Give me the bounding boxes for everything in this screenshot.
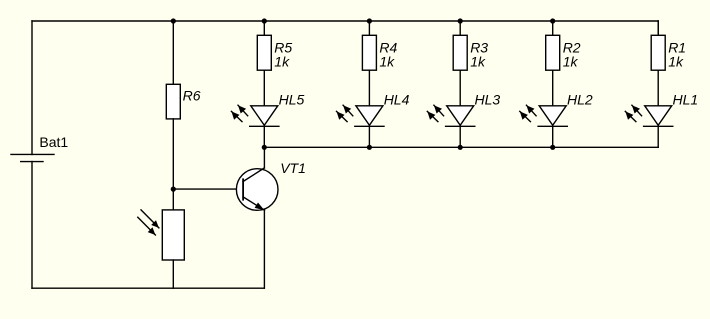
svg-text:1k: 1k (563, 54, 579, 70)
wire: battery positive to top rail (31, 21, 33, 154)
LED HL2 emission arrow 1 (526, 105, 536, 116)
LED HL2 triangle (539, 106, 566, 126)
LED HL3 cathode bar (446, 125, 475, 127)
wire: top rail to R2 (552, 21, 554, 35)
junction: LED rail / VT1 collector (262, 145, 267, 150)
svg-text:R6: R6 (183, 87, 201, 103)
LED HL3 emission arrow 2 (427, 111, 438, 121)
photoresistor light arrow 2 (138, 217, 156, 235)
svg-text:1k: 1k (379, 54, 395, 70)
LED HL1 emission arrow 1 (632, 105, 642, 116)
resistor R6 (166, 84, 180, 119)
junction: top rail / R3 (458, 18, 463, 23)
wire: R6 to base node (172, 119, 174, 189)
wire: top rail drop to R1 (657, 21, 659, 35)
LED HL5 emission arrow 2 (231, 111, 242, 121)
wire: top rail to R5 (263, 21, 265, 35)
LED HL3 triangle (447, 106, 474, 126)
LED HL4 emission arrow 2 (337, 111, 348, 121)
resistor R2 (546, 35, 560, 70)
LED HL5 cathode bar (250, 125, 279, 127)
svg-text:HL2: HL2 (567, 91, 593, 107)
photoresistor light arrow 1 (141, 210, 159, 228)
svg-text:1k: 1k (668, 54, 684, 70)
LED HL1 cathode bar (644, 125, 673, 127)
junction: top rail / R6 (171, 18, 176, 23)
LED HL4 cathode bar (355, 125, 384, 127)
svg-text:VT1: VT1 (280, 160, 306, 176)
transistor VT1 body circle (236, 169, 278, 211)
wire: bottom rail (32, 287, 264, 289)
svg-text:HL3: HL3 (475, 91, 501, 107)
transistor VT1 collector diagonal (243, 168, 264, 182)
LED HL4 emission arrow 1 (343, 105, 353, 116)
svg-text:Bat1: Bat1 (39, 134, 68, 150)
wire: R4 to LED HL4 and cathode rail (368, 70, 370, 147)
junction: LED rail / HL2 (550, 145, 555, 150)
wire: VT1 emitter to bottom rail (263, 210, 265, 288)
junction: top rail / R4 (367, 18, 372, 23)
wire: top rail to R6 (172, 21, 174, 84)
wire: battery negative down (31, 162, 33, 289)
resistor R5 (257, 35, 271, 70)
svg-text:HL4: HL4 (384, 91, 410, 107)
junction: VT1 base node (171, 187, 176, 192)
wire: top rail to R1 (657, 21, 659, 35)
junction: top rail / R2 (550, 18, 555, 23)
wire: R1 to LED HL1 and cathode rail (657, 70, 659, 147)
wire: base node to VT1 base (173, 188, 243, 190)
LED HL4 triangle (356, 106, 383, 126)
svg-text:HL5: HL5 (279, 91, 305, 107)
wire: VT1 collector to LED rail (263, 147, 265, 168)
LED HL1 triangle (645, 106, 672, 126)
svg-text:HL1: HL1 (673, 91, 699, 107)
svg-text:1k: 1k (274, 54, 290, 70)
transistor VT1 emitter diagonal with arrow (243, 197, 264, 210)
resistor R1 (651, 35, 665, 70)
LED HL3 emission arrow 1 (434, 105, 444, 116)
junction: LED rail / HL3 (458, 145, 463, 150)
wire: top rail (32, 20, 658, 22)
LED HL5 emission arrow 1 (238, 105, 248, 116)
wire: R3 to LED HL3 and cathode rail (459, 70, 461, 147)
battery Bat1 negative plate (21, 161, 43, 163)
resistor R4 (362, 35, 376, 70)
photoresistor body (162, 210, 184, 260)
transistor VT1 base bar (242, 179, 244, 199)
wire: top rail to R4 (368, 21, 370, 35)
LED HL5 triangle (251, 106, 278, 126)
junction: top rail / R5 (262, 18, 267, 23)
wire: R5 to LED HL5 and cathode rail (263, 70, 265, 147)
wire: top rail to R3 (459, 21, 461, 35)
LED HL1 emission arrow 2 (625, 111, 636, 121)
battery Bat1 positive plate (11, 153, 54, 155)
LED HL2 emission arrow 2 (520, 111, 531, 121)
svg-text:1k: 1k (470, 54, 486, 70)
junction: LED rail / HL4 (367, 145, 372, 150)
LED HL2 cathode bar (538, 125, 567, 127)
resistor R3 (453, 35, 467, 70)
wire: photoresistor to bottom rail (172, 260, 174, 288)
wire: LED cathode rail (264, 146, 658, 148)
wire: base node to photoresistor (172, 189, 174, 210)
wire: R2 to LED HL2 and cathode rail (552, 70, 554, 147)
